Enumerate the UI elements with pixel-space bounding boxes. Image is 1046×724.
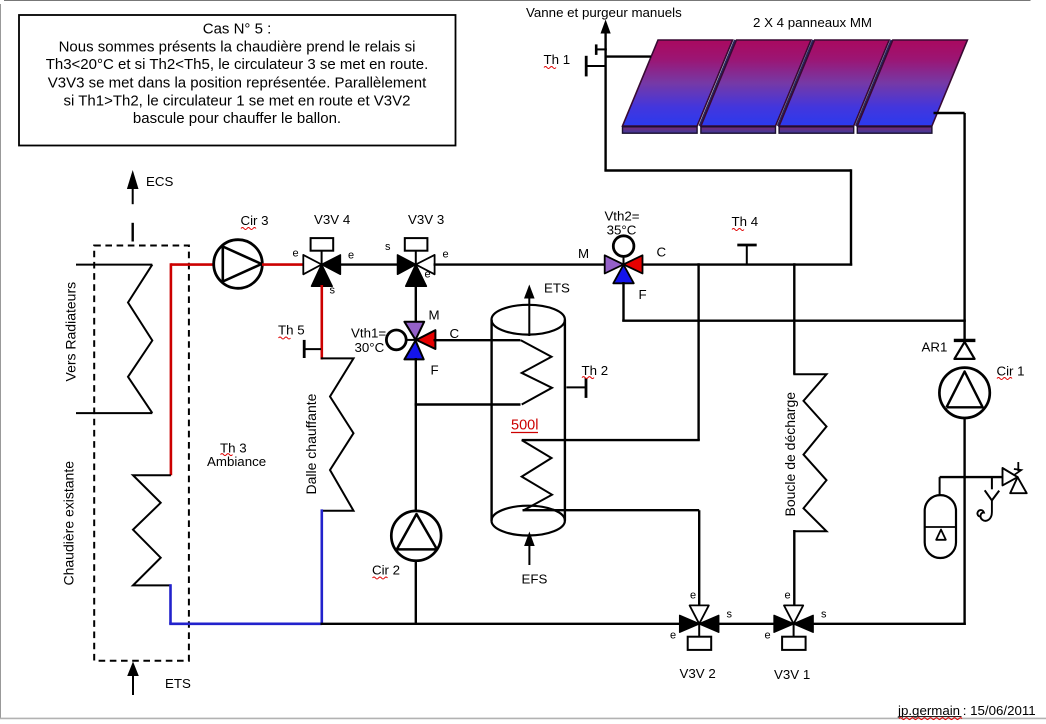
wire: main pipe V3V3 to Vth2 bbox=[434, 263, 606, 265]
wire: blue bottom return horizontal bbox=[169, 622, 322, 625]
ETS bottom arrow bbox=[127, 662, 139, 696]
wire: blue boiler return drop bbox=[169, 584, 172, 624]
valve V3V 3 bbox=[398, 238, 435, 286]
svg-text:2 X 4 panneaux MM: 2 X 4 panneaux MM bbox=[753, 15, 872, 30]
squiggle Th5 bbox=[279, 337, 291, 339]
svg-text:500l: 500l bbox=[511, 418, 538, 434]
svg-text:e: e bbox=[443, 249, 449, 261]
svg-text:s: s bbox=[330, 285, 336, 297]
svg-text:Th 5: Th 5 bbox=[278, 323, 305, 338]
wire: vessel stem bbox=[939, 477, 941, 496]
svg-text:Chaudière existante: Chaudière existante bbox=[61, 461, 77, 586]
EFS bottom arrow bbox=[524, 532, 535, 566]
boiler coil zigzag bbox=[133, 475, 171, 585]
tank upper coil bbox=[521, 340, 552, 404]
svg-text:si Th1>Th2, le circulateur 1 s: si Th1>Th2, le circulateur 1 se met en r… bbox=[64, 92, 411, 109]
svg-text:Th 2: Th 2 bbox=[582, 363, 609, 378]
svg-text:M: M bbox=[578, 246, 589, 261]
wire: tee down to tank lower coil bbox=[697, 263, 699, 440]
wire: radiator bottom stub bbox=[76, 412, 152, 414]
radiator zigzag bbox=[128, 265, 152, 414]
svg-text:V3V 1: V3V 1 bbox=[774, 667, 810, 682]
expansion vessel bbox=[925, 495, 956, 558]
tank lower coil bbox=[522, 440, 552, 511]
svg-text:Dalle chauffante: Dalle chauffante bbox=[303, 393, 319, 494]
svg-text:AR1: AR1 bbox=[922, 340, 948, 355]
svg-text:Th 4: Th 4 bbox=[732, 214, 759, 229]
svg-text:e: e bbox=[425, 269, 431, 281]
wire: pipe between V3V2 and V3V1 bbox=[718, 623, 776, 625]
sensor Th 4 bbox=[737, 245, 756, 264]
squiggle Cir3 bbox=[241, 228, 256, 230]
valve V3V 4 bbox=[303, 238, 340, 286]
solar panel gap sliver 1 bbox=[700, 40, 736, 126]
sensor Th1 bbox=[586, 56, 605, 77]
wire: right riser down bbox=[963, 113, 965, 341]
air vent arrow (purgeur) bbox=[601, 20, 611, 34]
svg-text:e: e bbox=[293, 248, 299, 260]
svg-text:Ambiance: Ambiance bbox=[207, 454, 266, 469]
pump Cir 3 bbox=[214, 240, 263, 289]
wire: panel outlet to right riser bbox=[934, 112, 965, 114]
wire: blue floor return drop bbox=[320, 509, 323, 625]
mixing valve Vth1 bbox=[386, 322, 435, 360]
sensor Th 5 bbox=[304, 340, 321, 358]
signature bbox=[897, 703, 1036, 718]
svg-text:V3V3 se met dans la position r: V3V3 se met dans la position représentée… bbox=[48, 74, 427, 91]
svg-text:Vanne et purgeur manuels: Vanne et purgeur manuels bbox=[526, 5, 682, 20]
svg-text:V3V 3: V3V 3 bbox=[408, 212, 444, 227]
svg-text:bascule pour chauffer le ballo: bascule pour chauffer le ballon. bbox=[133, 110, 341, 127]
note box frame bbox=[19, 15, 456, 146]
svg-text:F: F bbox=[431, 363, 439, 378]
wire: return line to right riser bbox=[622, 320, 966, 322]
wire: vertical drop to main pipe bbox=[850, 169, 852, 265]
svg-text:e: e bbox=[765, 630, 771, 642]
valve V3V 1 bbox=[774, 605, 813, 650]
wire: V3V3 down to Vth1 bbox=[415, 286, 417, 323]
manual valve tick bbox=[596, 44, 607, 55]
svg-text:s: s bbox=[821, 609, 827, 621]
svg-text:F: F bbox=[639, 287, 647, 302]
svg-text:e: e bbox=[690, 590, 696, 602]
wire: riser below Cir1 to bottom pipe bbox=[963, 418, 965, 625]
squiggle Th3 bbox=[221, 454, 233, 456]
pump Cir 2 bbox=[391, 511, 441, 561]
wire: red pipe Cir3 to V3V4 bbox=[262, 263, 304, 266]
svg-text:Cir 2: Cir 2 bbox=[372, 563, 400, 578]
svg-text:V3V 4: V3V 4 bbox=[314, 212, 350, 227]
solar panel gap sliver 2 bbox=[778, 40, 814, 126]
svg-text:C: C bbox=[450, 326, 460, 341]
label 500l bbox=[511, 418, 538, 434]
valve V3V 2 bbox=[680, 605, 719, 650]
svg-text:Th3<20°C et si Th2<Th5, le cir: Th3<20°C et si Th2<Th5, le circulateur 3… bbox=[46, 56, 429, 73]
wire: red boiler supply horizontal bbox=[171, 263, 213, 266]
wire: lower coil exit to V3V2 drop bbox=[523, 509, 700, 511]
svg-text:35°C: 35°C bbox=[607, 223, 637, 238]
pump Cir 1 bbox=[939, 368, 989, 418]
wire: discharge loop drop bbox=[793, 263, 795, 374]
label Th 3 Ambiance bbox=[207, 441, 266, 469]
wire: tank coil exit to Cir2 riser bbox=[415, 403, 521, 405]
wire: drop to V3V2 bbox=[698, 510, 700, 606]
solar panel gap sliver 3 bbox=[856, 40, 892, 126]
ECS arrow bbox=[127, 170, 139, 242]
wire: horizontal under panels bbox=[604, 169, 851, 171]
svg-text:M: M bbox=[429, 308, 440, 323]
dashed boiler enclosure bbox=[94, 246, 189, 661]
wire: Vth1 F down through Cir2 bbox=[415, 358, 417, 624]
svg-text:V3V 2: V3V 2 bbox=[680, 666, 716, 681]
squiggle Th4 bbox=[732, 229, 744, 231]
wire: radiator top stub bbox=[76, 264, 152, 266]
check valve AR1 bbox=[954, 340, 976, 359]
svg-text:Cas N° 5 :: Cas N° 5 : bbox=[203, 21, 272, 38]
floor heating zigzag (dalle chauffante) bbox=[321, 358, 354, 510]
svg-text:Vth1=: Vth1= bbox=[351, 326, 386, 341]
solar panel P1 bbox=[623, 40, 733, 133]
svg-text:Cir 1: Cir 1 bbox=[997, 364, 1025, 379]
svg-text:s: s bbox=[385, 241, 391, 253]
svg-text:Cir 3: Cir 3 bbox=[241, 213, 269, 228]
svg-text:ECS: ECS bbox=[146, 174, 173, 189]
wire: lower coil feed horizontal bbox=[522, 439, 700, 441]
drain funnel with hook bbox=[977, 477, 999, 521]
svg-text:e: e bbox=[348, 250, 354, 262]
solar panel P2 bbox=[701, 40, 811, 133]
safety valve group bbox=[1003, 462, 1027, 493]
note box text bbox=[46, 21, 429, 128]
squiggle Th2 bbox=[582, 377, 594, 379]
solar panel P4 bbox=[857, 40, 967, 133]
canvas top border bbox=[4, 0, 1031, 2]
squiggle signature bbox=[899, 718, 962, 720]
wire: discharge loop to V3V1 bbox=[793, 530, 795, 607]
svg-text:e: e bbox=[785, 590, 791, 602]
sensor Th 2 bbox=[566, 378, 586, 398]
svg-text:e: e bbox=[670, 630, 676, 642]
wire: red V3V4 drop to floor loop bbox=[320, 285, 323, 360]
wire: Vth1 C to tank coil bbox=[434, 339, 521, 341]
svg-text:EFS: EFS bbox=[522, 572, 548, 587]
wire: red boiler riser bbox=[170, 263, 173, 475]
squiggle Cir1 bbox=[997, 378, 1012, 380]
wire: black pipe V3V4 to V3V3 bbox=[340, 263, 398, 265]
wire: expansion branch horizontal bbox=[940, 476, 1003, 478]
wire: main pipe Vth2 to solar drop bbox=[642, 263, 852, 265]
wire: solar supply vertical (left of panels) bbox=[604, 27, 606, 171]
storage tank ETS body bbox=[492, 305, 565, 536]
svg-text:s: s bbox=[727, 609, 733, 621]
svg-text:Vers Radiateurs: Vers Radiateurs bbox=[63, 282, 79, 382]
solar panel P3 bbox=[779, 40, 889, 133]
mixing valve Vth2 bbox=[605, 236, 643, 283]
wire: pipe from vent to panel edge bbox=[606, 55, 651, 57]
svg-text:ETS: ETS bbox=[544, 281, 570, 296]
svg-text:30°C: 30°C bbox=[355, 340, 385, 355]
squiggle Th1 bbox=[544, 67, 556, 69]
discharge loop zigzag bbox=[793, 374, 826, 531]
label Vth2= 35C bbox=[604, 209, 639, 238]
wire: black bottom pipe to V3V2 bbox=[321, 623, 681, 625]
underline signature bbox=[899, 716, 962, 718]
canvas bottom border bbox=[0, 717, 1046, 719]
wire: pipe V3V1 to right riser bbox=[812, 623, 966, 625]
svg-text:ETS: ETS bbox=[165, 676, 191, 691]
svg-text:Boucle de décharge: Boucle de décharge bbox=[782, 392, 798, 517]
svg-text:Th 1: Th 1 bbox=[544, 52, 571, 67]
label Vth1= 30C bbox=[351, 326, 386, 356]
canvas left border bbox=[0, 4, 2, 718]
svg-text:Nous sommes présents la chaudi: Nous sommes présents la chaudière prend … bbox=[59, 38, 416, 55]
svg-text:C: C bbox=[657, 245, 667, 260]
wire: Vth2 F drop bbox=[622, 282, 624, 321]
ETS top arrow bbox=[524, 285, 535, 337]
squiggle Cir2 bbox=[373, 577, 388, 579]
svg-text:Vth2=: Vth2= bbox=[604, 209, 639, 224]
